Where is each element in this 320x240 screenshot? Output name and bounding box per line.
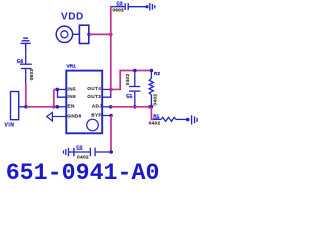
node BYP junction xyxy=(109,114,113,118)
ground for R1 (bars pointing right) xyxy=(192,115,197,124)
power symbol VDD xyxy=(56,12,91,44)
svg-text:651-0941-A0: 651-0941-A0 xyxy=(6,160,160,181)
capacitor C4 xyxy=(17,50,35,84)
resistor R1 xyxy=(149,113,188,126)
node C2 right dot xyxy=(109,150,113,154)
svg-text:IN5: IN5 xyxy=(68,86,77,91)
junction at VIN connector xyxy=(24,105,28,109)
wire IN5 stub xyxy=(57,88,66,90)
ground for C2 (bars pointing left) xyxy=(64,148,74,157)
node C1 bottom dot xyxy=(133,105,137,109)
svg-text:R2: R2 xyxy=(154,71,160,77)
svg-text:EN: EN xyxy=(68,104,76,109)
node ADJ junction xyxy=(109,105,113,109)
wire EN stub xyxy=(57,106,66,108)
bar at C2 ground attach xyxy=(73,148,75,157)
wire R1 drop magenta xyxy=(151,107,153,120)
svg-text:0603: 0603 xyxy=(112,8,124,14)
capacitor C3 xyxy=(112,0,147,13)
node C1 top dot xyxy=(133,69,137,73)
svg-text:GND8: GND8 xyxy=(67,113,81,118)
wire OUT4 stub xyxy=(102,88,111,90)
wire BYP stub xyxy=(102,115,111,117)
wire VIN vertical to IN pins xyxy=(53,89,55,106)
capacitor C2 xyxy=(74,145,111,161)
svg-text:OUT4: OUT4 xyxy=(87,86,101,91)
svg-text:0603: 0603 xyxy=(29,69,35,81)
svg-text:0402: 0402 xyxy=(125,74,131,86)
wire ADJ stub xyxy=(102,106,111,108)
node IN junction dot xyxy=(56,88,60,92)
wire VIN net from C4 down xyxy=(25,84,27,107)
node R2 top dot xyxy=(150,69,154,73)
wire OUT tie down to OUT3 xyxy=(102,89,111,97)
svg-text:BYP: BYP xyxy=(91,112,102,117)
wire VDD to trunk xyxy=(89,33,111,35)
wire trunk vertical VDD net xyxy=(111,7,113,90)
svg-text:VDD: VDD xyxy=(61,12,84,23)
connector VIN xyxy=(5,92,27,129)
node R2 bottom blue dot xyxy=(150,105,154,109)
node EN junction magenta dot xyxy=(52,105,56,109)
node OUT4 junction xyxy=(109,88,113,92)
wire drop BYP to C2 xyxy=(110,116,112,153)
node R2 bottom magenta dot xyxy=(148,105,152,109)
wire riser to top rail magenta xyxy=(111,71,150,90)
off-page arrow on GND8 xyxy=(47,112,67,121)
svg-text:IN6: IN6 xyxy=(68,94,77,99)
node VDD trunk junction xyxy=(109,33,113,37)
node R1 ground dot xyxy=(186,118,190,122)
ground for C3 (bars pointing right) xyxy=(150,3,155,11)
svg-text:VR1: VR1 xyxy=(66,64,76,70)
node EN junction blue dot xyxy=(56,105,60,109)
svg-text:OUT3: OUT3 xyxy=(87,94,101,99)
svg-text:VIN: VIN xyxy=(5,122,15,128)
wire ADJ rail magenta xyxy=(111,106,152,108)
wire IN tie vertical xyxy=(58,89,67,97)
resistor R2 xyxy=(149,71,160,107)
ground for C4 (top-left, bars pointing up) xyxy=(21,38,31,50)
capacitor C1 xyxy=(125,71,140,107)
node at C3 ground xyxy=(145,5,148,8)
wire short magenta at IN5 xyxy=(54,88,57,90)
svg-text:ADJ: ADJ xyxy=(92,104,102,109)
wire VIN net horizontal xyxy=(26,106,56,108)
op IC VR1 box xyxy=(66,64,102,134)
svg-text:0402: 0402 xyxy=(149,120,161,126)
svg-text:0402: 0402 xyxy=(153,94,159,106)
